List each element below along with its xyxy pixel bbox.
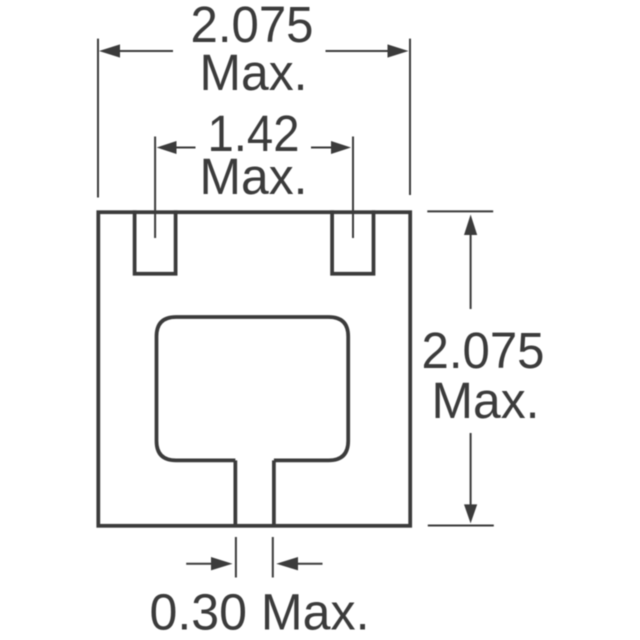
height dimension: down arrow [470, 433, 472, 505]
slot width dimension: right extension line [272, 537, 274, 578]
top width dimension: left extension line [97, 39, 99, 198]
notch spacing dimension: right extension line [352, 137, 354, 239]
svg-text:Max.: Max. [200, 44, 308, 101]
svg-text:Max.: Max. [200, 148, 308, 205]
svg-text:Max.: Max. [432, 372, 540, 429]
height dimension: top extension tick [427, 210, 493, 212]
svg-text:2.075: 2.075 [422, 322, 545, 379]
package body outline [98, 212, 410, 526]
slot width dimension: left arrow (points right) [186, 563, 212, 565]
lead slot right wall [272, 460, 276, 527]
height dimension: bottom extension tick [428, 525, 494, 527]
height dimension: up arrow [464, 215, 477, 236]
left mounting notch [135, 212, 176, 274]
inner rounded cavity [157, 317, 349, 460]
lead slot left wall [233, 460, 237, 527]
slot width dimension: right arrow (points left) [276, 557, 298, 570]
top width dimension: right extension line [409, 39, 411, 195]
svg-text:0.30 Max.: 0.30 Max. [150, 584, 370, 640]
top width dimension: right arrow [388, 44, 409, 57]
notch spacing dimension: left arrow [157, 141, 177, 154]
notch spacing dimension: right arrow [331, 141, 351, 154]
right mounting notch [332, 212, 373, 274]
notch spacing dimension: left extension line [154, 137, 156, 239]
slot width dimension: left extension line [235, 537, 237, 578]
top width dimension: left arrow [99, 44, 120, 57]
